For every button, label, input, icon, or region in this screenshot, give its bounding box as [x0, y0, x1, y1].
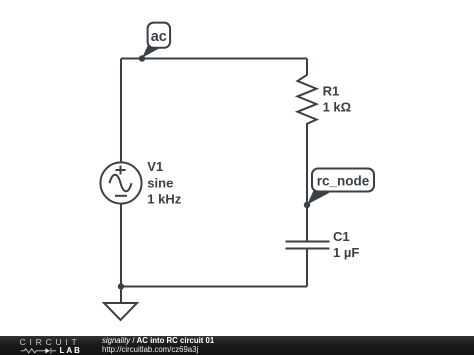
tooltip tail rc_node: [307, 191, 329, 205]
wire top horizontal: [121, 58, 307, 60]
node dot ground junction: [118, 283, 124, 289]
tooltip box ac: [148, 23, 171, 48]
svg-text:1 µF: 1 µF: [333, 245, 359, 260]
circuitlab logo: [0, 336, 90, 355]
svg-text:rc_node: rc_node: [317, 173, 370, 188]
svg-text:V1: V1: [147, 159, 163, 174]
svg-text:C1: C1: [333, 229, 350, 244]
ground: [120, 287, 122, 304]
capacitor C1: [286, 242, 330, 249]
svg-text:sine: sine: [147, 175, 173, 190]
svg-text:ac: ac: [151, 29, 167, 45]
tooltip tail ac: [142, 45, 160, 58]
svg-text:LAB: LAB: [60, 346, 81, 355]
wire right + resistor R1: [298, 59, 317, 242]
wire bottom horizontal: [121, 286, 307, 288]
svg-text:1 kΩ: 1 kΩ: [323, 100, 352, 115]
svg-text:R1: R1: [323, 84, 340, 99]
wire left lower: [120, 204, 122, 287]
svg-text:1 kHz: 1 kHz: [147, 192, 181, 207]
node dot rc_node: [304, 202, 310, 208]
tooltip box rc_node: [312, 169, 374, 192]
node dot ac: [139, 55, 145, 61]
voltage source V1: [100, 162, 141, 203]
wire left upper: [120, 59, 122, 163]
